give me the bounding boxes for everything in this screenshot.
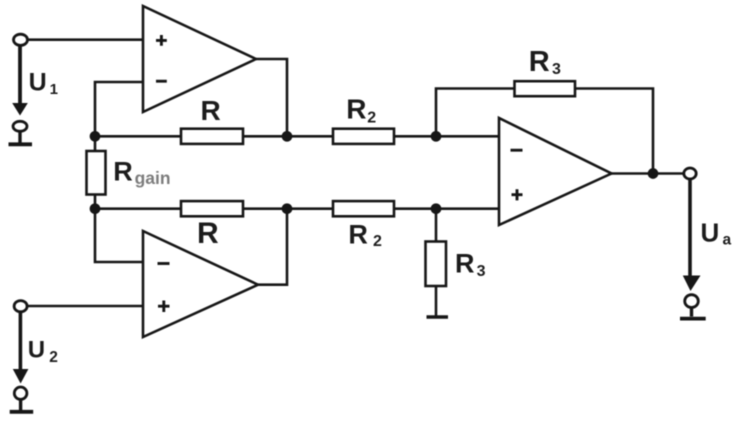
svg-text:R: R (529, 46, 550, 78)
wire R3 shunt branch to ground (435, 209, 438, 317)
wire Rgain vertical link (94, 136, 97, 208)
svg-text:R: R (197, 217, 219, 250)
wire bottom rail (node B through R, R2 to A3 noninverting input) (95, 207, 500, 210)
svg-text:U: U (29, 69, 47, 97)
svg-text:1: 1 (50, 81, 58, 98)
svg-text:U: U (701, 217, 720, 247)
voltage arrow Ua (683, 180, 701, 291)
resistor R3 (shunt) (426, 242, 447, 287)
resistor R3 (feedback) (515, 81, 576, 96)
ground terminal below Ua (680, 295, 706, 319)
junction R2 / R3 shunt node (432, 205, 440, 213)
wire A3 output to terminal (610, 172, 684, 175)
input terminal T2 (14, 301, 27, 312)
label Rgain (113, 156, 170, 188)
voltage arrow U2 (13, 313, 29, 384)
wire A2 inverting input to node B (95, 209, 144, 262)
svg-text:3: 3 (477, 263, 486, 280)
junction A1 output on top rail (283, 132, 291, 140)
svg-text:2: 2 (367, 109, 376, 126)
wire A2 output up to bottom rail (256, 209, 287, 285)
wire A1 output down to top rail (255, 59, 287, 136)
svg-text:R: R (346, 94, 366, 125)
svg-text:R: R (201, 95, 221, 126)
junction output node (649, 169, 657, 177)
svg-text:R: R (113, 156, 133, 186)
svg-text:2: 2 (49, 349, 58, 366)
input terminal T1 (14, 34, 28, 45)
label R3 (shunt) (455, 249, 486, 280)
resistor R (top) (181, 129, 243, 144)
op-amp A1 (143, 6, 256, 112)
junction node B (91, 205, 99, 213)
resistor R2 (top) (333, 129, 394, 144)
wire T1 to A1 noninverting input (27, 38, 144, 41)
resistor Rgain (87, 151, 106, 195)
label U2 (28, 336, 58, 366)
junction R2 / R3 feedback node (432, 132, 440, 140)
label R2 (top) (346, 94, 376, 127)
op-amp A3 (499, 118, 612, 225)
svg-text:U: U (28, 336, 45, 363)
voltage arrow U1 (12, 46, 28, 116)
op-amp A2 (143, 231, 258, 337)
output terminal (684, 168, 696, 179)
ground terminal below U2 (10, 387, 34, 412)
wire feedback through R3 to output node (436, 89, 653, 174)
label R2 (bottom) (348, 220, 382, 251)
resistor R2 (bottom) (333, 201, 394, 216)
svg-text:2: 2 (373, 233, 382, 250)
wire A1 inverting input to node A (95, 82, 144, 136)
svg-text:R: R (455, 249, 475, 279)
svg-text:a: a (723, 232, 732, 249)
ground bar for R3 shunt (427, 315, 449, 319)
resistor R (bottom) (181, 201, 243, 216)
ground terminal below U1 (9, 121, 33, 144)
label Ua (701, 217, 732, 248)
label U1 (29, 69, 58, 98)
wire T2 to A2 noninverting input (27, 305, 144, 308)
wire top rail (node A through R, R2 to A3 inverting input) (95, 135, 500, 138)
junction node A (91, 132, 99, 140)
svg-text:R: R (348, 220, 368, 250)
junction A2 output on bottom rail (283, 205, 291, 213)
label R3 (feedback) (529, 46, 561, 78)
svg-text:gain: gain (135, 168, 171, 188)
svg-text:3: 3 (552, 61, 561, 78)
